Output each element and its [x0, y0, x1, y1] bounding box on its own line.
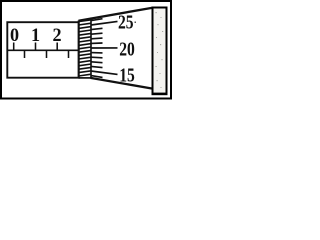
outer frame	[1, 1, 171, 99]
thimble scale line 22	[91, 37, 103, 40]
thimble scale line 20	[91, 47, 118, 49]
main scale reference line	[7, 49, 79, 51]
thimble scale line 19	[91, 52, 103, 54]
ratchet knob body	[153, 8, 167, 95]
sleeve body	[7, 22, 79, 77]
thimble scale line 25	[91, 21, 118, 25]
hatched strip left edge	[78, 21, 80, 79]
thimble scale line 18	[91, 56, 103, 59]
sleeve bottom extension under hatch	[79, 77, 92, 79]
thimble bottom edge	[91, 78, 153, 89]
main scale upper tick 2	[56, 43, 58, 51]
dot after 25	[135, 22, 137, 24]
hatched strip: thimble edge hatching	[79, 16, 92, 76]
main scale upper tick 0	[13, 43, 15, 51]
ratchet knob bottom thick edge	[152, 93, 168, 96]
main scale upper tick 1	[35, 43, 37, 51]
ratchet speckles	[156, 12, 164, 88]
thimble top edge	[79, 8, 153, 21]
main scale lower tick 0.5	[24, 50, 26, 58]
svg-text:2: 2	[52, 25, 61, 45]
thimble scale line 16	[91, 66, 103, 67]
svg-text:15: 15	[119, 63, 135, 85]
svg-text:0: 0	[10, 25, 19, 45]
svg-text:25: 25	[118, 10, 134, 32]
main scale lower tick 2.5	[68, 50, 70, 58]
svg-text:1: 1	[31, 25, 40, 45]
thimble scale line 24	[91, 28, 103, 29]
thimble scale line 14	[91, 76, 103, 78]
main scale lower tick 1.5	[46, 50, 48, 58]
svg-text:20: 20	[119, 37, 135, 59]
thimble scale line 17	[91, 61, 103, 64]
thimble scale line 21	[91, 42, 103, 44]
thimble scale line 23	[91, 33, 103, 34]
thimble scale line 26	[91, 19, 103, 21]
thimble scale line 15	[91, 71, 118, 74]
hatched strip right edge	[90, 18, 92, 79]
